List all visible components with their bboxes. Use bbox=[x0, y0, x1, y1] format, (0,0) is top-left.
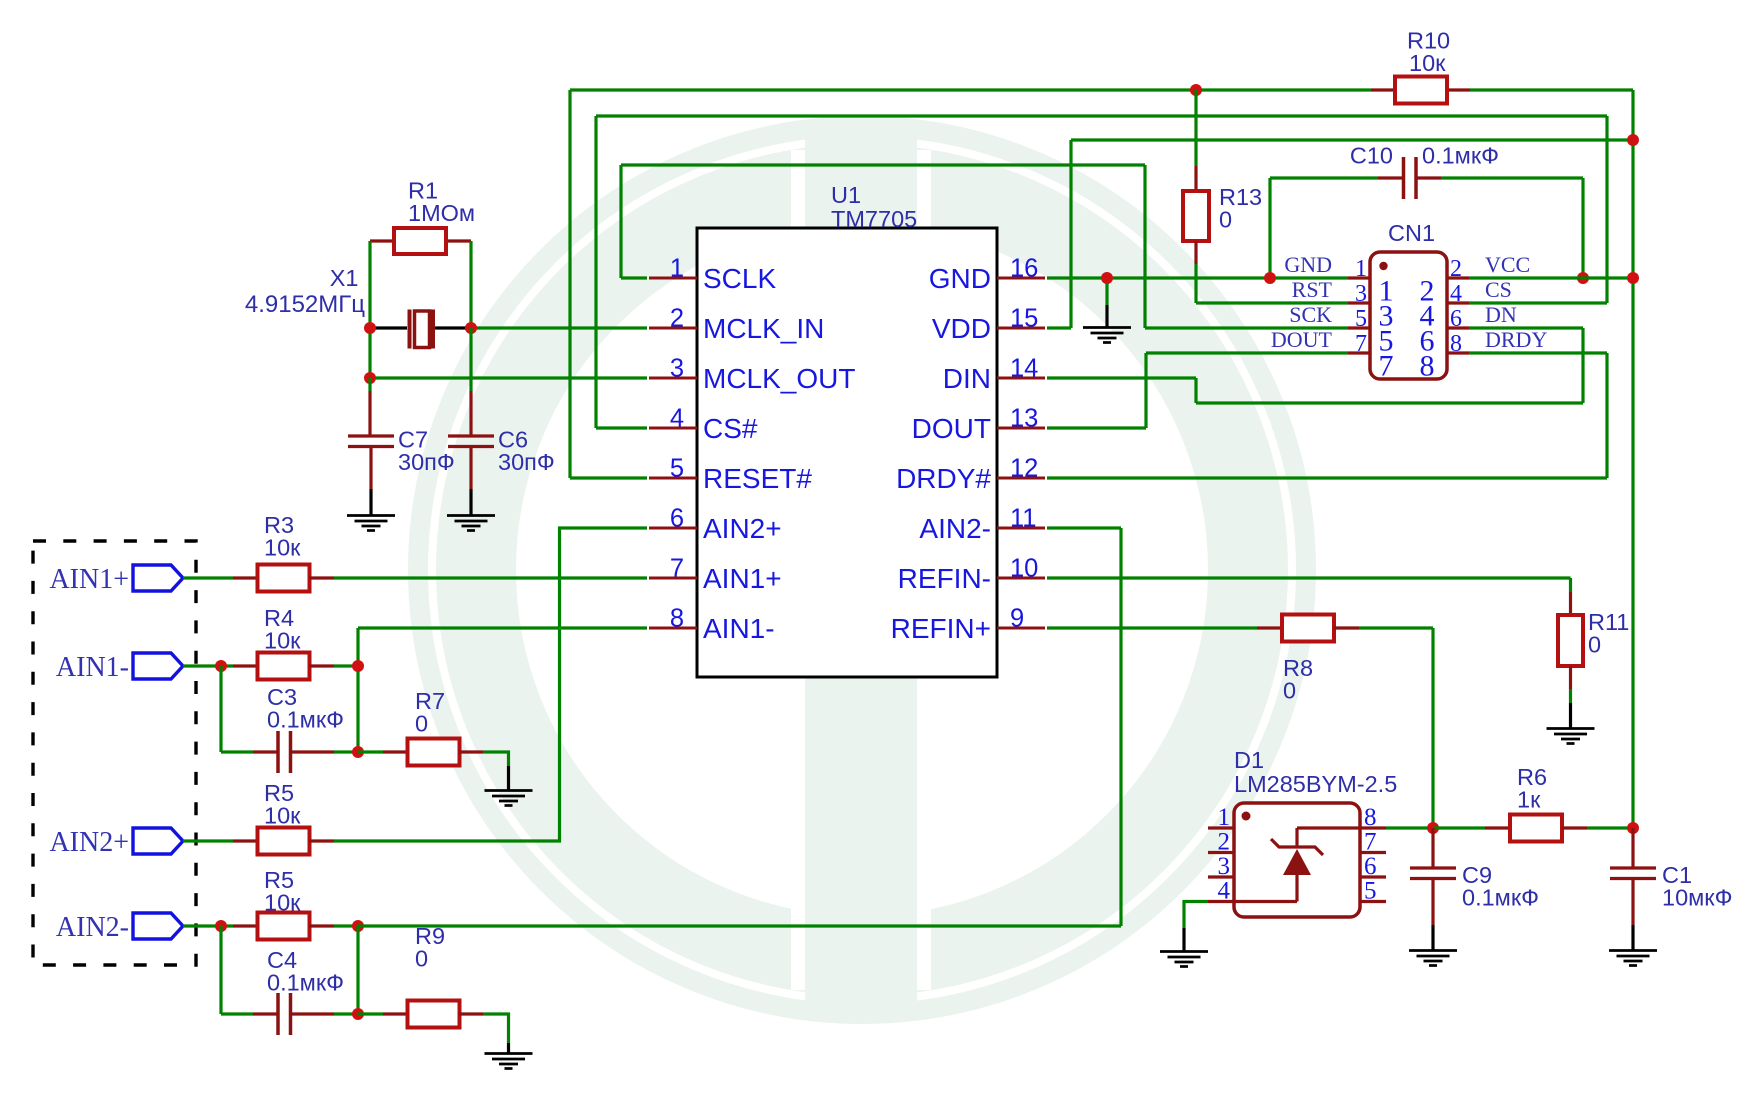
wire SCK row to CN1 bbox=[1145, 326, 1348, 329]
svg-text:1к: 1к bbox=[1517, 787, 1541, 813]
U1 pin 1 SCLK bbox=[649, 277, 697, 280]
svg-text:AIN1-: AIN1- bbox=[56, 652, 129, 683]
svg-text:AIN1+: AIN1+ bbox=[703, 563, 782, 594]
svg-text:TM7705: TM7705 bbox=[831, 206, 917, 232]
svg-text:VCC: VCC bbox=[1485, 252, 1530, 277]
wire DIN horizontal bbox=[1196, 401, 1583, 404]
wire to R7 bbox=[358, 750, 383, 753]
wire C10 to VCC row bbox=[1581, 178, 1584, 278]
U1 pin 13 DOUT bbox=[997, 427, 1045, 430]
svg-text:10к: 10к bbox=[264, 628, 301, 654]
ground bbox=[1160, 952, 1208, 967]
svg-text:8: 8 bbox=[1364, 804, 1377, 831]
wire to C6 bbox=[469, 328, 472, 391]
svg-text:10к: 10к bbox=[264, 535, 301, 561]
D1 pin 8 bbox=[1360, 826, 1386, 829]
CN1 pin 5 SCK bbox=[1348, 326, 1370, 329]
wire DOUT vertical bbox=[1144, 353, 1147, 428]
wire VCC row bbox=[1469, 276, 1633, 279]
svg-text:4.9152МГц: 4.9152МГц bbox=[245, 291, 365, 318]
C4 left lead bbox=[253, 1012, 277, 1015]
resistor R5 bbox=[258, 828, 310, 855]
svg-text:RST: RST bbox=[1292, 277, 1333, 302]
wire CS# net top bbox=[596, 114, 1607, 117]
wire AIN2- long horizontal bbox=[358, 924, 1121, 927]
svg-text:5: 5 bbox=[1364, 878, 1377, 905]
U1 pin 14 DIN bbox=[997, 377, 1045, 380]
wire C4 right bbox=[334, 1012, 358, 1015]
wire vertical to SCLK bbox=[619, 165, 622, 278]
U1 pin 10 REFIN- bbox=[997, 577, 1045, 580]
wire DRDY row CN1 bbox=[1469, 351, 1607, 354]
U1 pin 4 CS# bbox=[649, 427, 697, 430]
wire REFIN- bbox=[1047, 576, 1571, 579]
node AIN1- right junction bbox=[352, 660, 364, 672]
svg-text:VDD: VDD bbox=[932, 313, 991, 344]
C7 bottom lead bbox=[369, 447, 372, 489]
ground bbox=[485, 1054, 533, 1069]
watermark bar bbox=[805, 120, 917, 1017]
svg-text:10к: 10к bbox=[264, 803, 301, 829]
wire to C7 bbox=[368, 378, 371, 391]
R13 top lead bbox=[1194, 166, 1197, 191]
svg-text:8: 8 bbox=[670, 605, 684, 633]
svg-text:5: 5 bbox=[1355, 306, 1367, 332]
wire R9 to ground bbox=[483, 1014, 509, 1043]
R5 right lead bbox=[309, 924, 334, 927]
svg-text:10к: 10к bbox=[1409, 50, 1446, 76]
wire C10 right bbox=[1441, 176, 1583, 179]
wire CS vertical bbox=[1605, 116, 1608, 303]
capacitor C4 bbox=[278, 993, 291, 1035]
wire AIN2+ to pin 6 bbox=[334, 528, 647, 841]
wire CS# row bbox=[596, 426, 647, 429]
wire C6 to ground bbox=[469, 489, 472, 515]
wire VDD vertical bbox=[1069, 140, 1072, 328]
wire to C3 bbox=[221, 750, 253, 753]
R11 bottom lead bbox=[1569, 666, 1572, 689]
CN1 pin 6 DN bbox=[1447, 326, 1469, 329]
svg-text:3: 3 bbox=[1355, 281, 1367, 307]
capacitor C3 bbox=[278, 731, 291, 773]
input connector dashed box bbox=[33, 541, 196, 965]
ground bbox=[447, 516, 495, 531]
svg-text:AIN1-: AIN1- bbox=[703, 613, 775, 644]
U1 pin 16 GND bbox=[997, 277, 1045, 280]
CN1 pin 3 RST bbox=[1348, 301, 1370, 304]
R9 right lead bbox=[459, 1012, 483, 1015]
svg-text:CS: CS bbox=[1485, 277, 1512, 302]
svg-text:X1: X1 bbox=[330, 265, 359, 291]
R5 left lead bbox=[233, 839, 258, 842]
node GND junction bbox=[1101, 272, 1113, 284]
wire VDD to VCC net bbox=[1071, 138, 1633, 141]
wire R7 ground stem bbox=[507, 766, 510, 790]
wire AIN2+ to R5 bbox=[183, 839, 233, 842]
U1 pin 12 DRDY# bbox=[997, 477, 1045, 480]
svg-text:10: 10 bbox=[1010, 555, 1038, 583]
svg-text:DIN: DIN bbox=[943, 363, 991, 394]
svg-text:AIN2+: AIN2+ bbox=[703, 513, 782, 544]
wire DOUT row CN1 bbox=[1146, 351, 1348, 354]
watermark inner ring bbox=[476, 184, 1248, 956]
svg-text:4: 4 bbox=[1450, 281, 1462, 307]
svg-text:4: 4 bbox=[670, 405, 684, 433]
wire R4 right bbox=[334, 664, 358, 667]
svg-text:16: 16 bbox=[1010, 255, 1038, 283]
wire C10 left vertical bbox=[1268, 178, 1271, 278]
svg-text:CN1: CN1 bbox=[1388, 220, 1435, 246]
svg-text:CS#: CS# bbox=[703, 413, 758, 444]
capacitor C6 bbox=[448, 436, 494, 447]
D1 pin 7 bbox=[1360, 851, 1386, 854]
node C10-GND junction bbox=[1264, 272, 1276, 284]
wire C1 ground stem bbox=[1631, 925, 1634, 950]
node crystal right bbox=[465, 322, 477, 334]
node C10-VCC junction bbox=[1577, 272, 1589, 284]
CN1 pin 4 CS bbox=[1447, 301, 1469, 304]
R4 right lead bbox=[309, 664, 334, 667]
svg-text:5: 5 bbox=[670, 455, 684, 483]
wire R1 left vertical bbox=[368, 241, 371, 328]
node VCC junction bbox=[1627, 272, 1639, 284]
resistor R7 bbox=[408, 739, 460, 766]
svg-text:30пФ: 30пФ bbox=[498, 449, 555, 475]
U1 pin 15 VDD bbox=[997, 327, 1045, 330]
svg-text:14: 14 bbox=[1010, 355, 1038, 383]
R7 right lead bbox=[459, 750, 483, 753]
wire AIN2- to R5 bbox=[183, 924, 233, 927]
resistor R9 bbox=[408, 1001, 460, 1028]
U1 pin 8 AIN1- bbox=[649, 627, 697, 630]
R10 right lead bbox=[1446, 88, 1470, 91]
U1 pin 5 RESET# bbox=[649, 477, 697, 480]
wire to C4 bbox=[221, 1012, 253, 1015]
svg-text:DRDY: DRDY bbox=[1485, 327, 1547, 352]
wire REFIN+ bbox=[1047, 626, 1257, 629]
node R6-C1 junction bbox=[1627, 822, 1639, 834]
svg-text:SCLK: SCLK bbox=[703, 263, 776, 294]
capacitor C10 bbox=[1404, 157, 1417, 199]
svg-text:0: 0 bbox=[1283, 678, 1296, 704]
ground bbox=[1409, 951, 1457, 966]
R5 right lead bbox=[309, 839, 334, 842]
wire SCLK row bbox=[621, 276, 647, 279]
IC U1 TM7705 body bbox=[697, 228, 997, 677]
svg-text:9: 9 bbox=[1010, 605, 1024, 633]
svg-text:11: 11 bbox=[1010, 505, 1036, 533]
svg-text:8: 8 bbox=[1450, 331, 1462, 357]
wire R1 right vertical bbox=[469, 241, 472, 328]
node AIN2- left junction bbox=[215, 920, 227, 932]
svg-text:8: 8 bbox=[1420, 350, 1435, 383]
node VDD-VCC junction bbox=[1627, 134, 1639, 146]
wire R9 ground stem bbox=[507, 1043, 510, 1053]
C3 right lead bbox=[292, 750, 334, 753]
wire ground stem black bbox=[1105, 305, 1108, 327]
wire R7 to ground bbox=[483, 752, 509, 766]
watermark gaps bbox=[791, 150, 805, 990]
wire D1 ground stem bbox=[1182, 928, 1185, 951]
resistor R5 bbox=[258, 913, 310, 940]
wire R8 right bbox=[1359, 626, 1433, 629]
R5 left lead bbox=[233, 924, 258, 927]
wire vertical to CS# bbox=[594, 116, 597, 428]
wire AIN1+ to R3 bbox=[183, 576, 233, 579]
R8 left lead bbox=[1257, 626, 1282, 629]
svg-text:13: 13 bbox=[1010, 405, 1038, 433]
resistor R6 bbox=[1510, 815, 1562, 842]
wire DN row bbox=[1469, 326, 1583, 329]
CN1 pin1 marker dot bbox=[1379, 262, 1387, 270]
wire RST row bbox=[1196, 301, 1348, 304]
wire MCLK_IN bbox=[471, 326, 647, 329]
svg-text:6: 6 bbox=[1364, 853, 1377, 880]
svg-text:10мкФ: 10мкФ bbox=[1662, 885, 1732, 911]
CN1 pin 8 DRDY bbox=[1447, 351, 1469, 354]
D1 pin 3 bbox=[1208, 875, 1234, 878]
R10 left lead bbox=[1371, 88, 1395, 91]
wire VCC vertical right bbox=[1631, 90, 1634, 828]
resistor R10 bbox=[1395, 77, 1447, 104]
svg-text:12: 12 bbox=[1010, 455, 1038, 483]
svg-text:2: 2 bbox=[1450, 256, 1462, 282]
U1 pin 2 MCLK_IN bbox=[649, 327, 697, 330]
wire vertical SCLK to SCK bbox=[1143, 165, 1146, 328]
wire DIN up to DN bbox=[1581, 328, 1584, 403]
C1 bottom lead bbox=[1631, 879, 1634, 925]
svg-text:2: 2 bbox=[1218, 829, 1231, 856]
svg-text:AIN2-: AIN2- bbox=[919, 513, 991, 544]
wire to R6 bbox=[1433, 826, 1485, 829]
C3 left lead bbox=[253, 750, 277, 753]
C6 top lead bbox=[469, 391, 472, 435]
svg-text:0.1мкФ: 0.1мкФ bbox=[267, 970, 344, 996]
wire down to C4 bbox=[219, 926, 222, 1014]
R7 left lead bbox=[383, 750, 408, 753]
svg-text:MCLK_IN: MCLK_IN bbox=[703, 313, 824, 344]
R11 top lead bbox=[1569, 592, 1572, 615]
svg-text:0.1мкФ: 0.1мкФ bbox=[1422, 143, 1499, 169]
R13 bottom lead bbox=[1194, 241, 1197, 264]
wire DOUT bbox=[1047, 426, 1146, 429]
svg-text:30пФ: 30пФ bbox=[398, 449, 455, 475]
wire D1 pin4 to ground bbox=[1184, 902, 1208, 929]
D1 pin1 marker dot bbox=[1242, 812, 1251, 821]
U1 pin 11 AIN2- bbox=[997, 527, 1045, 530]
wire down to C3 bbox=[219, 666, 222, 752]
node AIN1- left junction bbox=[215, 660, 227, 672]
CN1 pin 7 DOUT bbox=[1348, 351, 1370, 354]
port AIN2- bbox=[133, 913, 183, 939]
U1 pin 7 AIN1+ bbox=[649, 577, 697, 580]
capacitor C9 bbox=[1410, 868, 1456, 879]
D1 pin 4 bbox=[1208, 900, 1234, 903]
wire VDD bbox=[1047, 326, 1071, 329]
crystal X1 bbox=[410, 310, 434, 349]
wire C7 to ground bbox=[369, 489, 372, 515]
node C3-R7 junction bbox=[352, 746, 364, 758]
svg-text:DOUT: DOUT bbox=[1271, 327, 1333, 352]
node AIN2- right junction bbox=[352, 920, 364, 932]
wire to C10 bbox=[1270, 176, 1378, 179]
resistor R4 bbox=[258, 653, 310, 680]
svg-text:0: 0 bbox=[415, 946, 428, 972]
wire D1 pin8 out bbox=[1386, 826, 1433, 829]
ground bbox=[347, 516, 395, 531]
wire DRDY# bbox=[1047, 476, 1607, 479]
ground bbox=[1609, 951, 1657, 966]
node C4-R9 junction bbox=[352, 1008, 364, 1020]
wire to R9 bbox=[358, 1012, 383, 1015]
wire R4/C3 junction vertical bbox=[356, 628, 359, 752]
node MCLK_OUT junction bbox=[364, 372, 376, 384]
wire GND row U1 to CN1 bbox=[1047, 276, 1348, 279]
R1 right lead bbox=[446, 239, 471, 242]
svg-text:MCLK_OUT: MCLK_OUT bbox=[703, 363, 855, 394]
svg-text:7: 7 bbox=[1355, 331, 1367, 357]
wire AIN1- to R4 bbox=[183, 664, 233, 667]
R1 left lead bbox=[370, 239, 394, 242]
svg-text:7: 7 bbox=[1364, 829, 1377, 856]
wire R8 to D1 pin8 node bbox=[1431, 628, 1434, 828]
wire R10 right to VCC vertical bbox=[1470, 88, 1633, 91]
wire vertical to RESET# bbox=[568, 90, 571, 478]
wire R11 bottom bbox=[1569, 689, 1572, 703]
wire R11 ground stem bbox=[1569, 703, 1572, 728]
resistor R8 bbox=[1282, 615, 1334, 642]
wire junction vertical bbox=[356, 926, 359, 1014]
CN1 pin 2 VCC bbox=[1447, 276, 1469, 279]
wire AIN2- vertical bbox=[1119, 528, 1122, 926]
svg-text:DN: DN bbox=[1485, 302, 1517, 327]
svg-text:1: 1 bbox=[1218, 804, 1231, 831]
wire R11 top bbox=[1569, 578, 1572, 592]
wire CS row CN1 bbox=[1469, 301, 1607, 304]
svg-text:0.1мкФ: 0.1мкФ bbox=[267, 707, 344, 733]
svg-text:GND: GND bbox=[929, 263, 991, 294]
svg-text:0: 0 bbox=[1219, 207, 1232, 233]
svg-text:0.1мкФ: 0.1мкФ bbox=[1462, 885, 1539, 911]
port AIN1+ bbox=[133, 565, 183, 591]
svg-text:D1: D1 bbox=[1234, 747, 1264, 773]
wire DIN bbox=[1047, 376, 1196, 379]
svg-text:U1: U1 bbox=[831, 182, 861, 208]
capacitor C1 bbox=[1610, 868, 1656, 879]
watermark logo ring bbox=[418, 126, 1306, 1014]
C4 right lead bbox=[292, 1012, 334, 1015]
R9 left lead bbox=[383, 1012, 408, 1015]
svg-text:15: 15 bbox=[1010, 305, 1038, 333]
wire AIN2- to pin 11 bbox=[1047, 526, 1121, 529]
svg-text:3: 3 bbox=[1218, 853, 1231, 880]
node crystal left bbox=[364, 322, 376, 334]
wire R13 top bbox=[1194, 90, 1197, 166]
D1 internal zener diode bbox=[1234, 828, 1360, 902]
C10 left lead bbox=[1378, 176, 1403, 179]
svg-text:C10: C10 bbox=[1350, 143, 1393, 169]
wire AIN1- to pin 8 bbox=[358, 626, 647, 629]
R6 right lead bbox=[1562, 826, 1587, 829]
svg-text:LM285BYM-2.5: LM285BYM-2.5 bbox=[1234, 771, 1397, 797]
svg-text:0: 0 bbox=[415, 711, 428, 737]
R8 right lead bbox=[1334, 626, 1359, 629]
C6 bottom lead bbox=[469, 447, 472, 489]
U1 pin 3 MCLK_OUT bbox=[649, 377, 697, 380]
C1 top lead bbox=[1631, 828, 1634, 867]
D1 pin 1 bbox=[1208, 826, 1234, 829]
ground bbox=[1547, 729, 1595, 744]
wire crystal right lead bbox=[435, 326, 471, 329]
wire SCLK net top bbox=[621, 163, 1145, 166]
C7 top lead bbox=[368, 391, 371, 435]
wire crystal left lead bbox=[370, 326, 407, 329]
port AIN2+ bbox=[133, 828, 183, 854]
wire ground stem bbox=[1105, 278, 1108, 305]
svg-text:AIN1+: AIN1+ bbox=[49, 564, 129, 595]
svg-text:6: 6 bbox=[670, 505, 684, 533]
connector CN1 body bbox=[1370, 252, 1447, 379]
D1 pin 6 bbox=[1360, 875, 1386, 878]
svg-text:4: 4 bbox=[1218, 878, 1231, 905]
C10 right lead bbox=[1416, 176, 1441, 179]
capacitor C7 bbox=[348, 436, 394, 447]
port AIN1- bbox=[133, 653, 183, 679]
svg-text:0: 0 bbox=[1588, 632, 1601, 658]
svg-text:DRDY#: DRDY# bbox=[896, 463, 991, 494]
svg-text:2: 2 bbox=[670, 305, 684, 333]
R3 left lead bbox=[233, 576, 258, 579]
svg-text:6: 6 bbox=[1450, 306, 1462, 332]
wire R6 to C1 bbox=[1587, 826, 1633, 829]
wire DIN jog down bbox=[1194, 378, 1197, 403]
ground bbox=[485, 791, 533, 806]
svg-text:7: 7 bbox=[1379, 350, 1394, 383]
wire DRDY vertical bbox=[1605, 353, 1608, 478]
svg-text:REFIN+: REFIN+ bbox=[891, 613, 991, 644]
wire MCLK_OUT bbox=[370, 376, 647, 379]
svg-text:1: 1 bbox=[670, 255, 684, 283]
resistor R13 bbox=[1183, 191, 1209, 241]
node R13 top junction bbox=[1190, 84, 1202, 96]
svg-text:1МОм: 1МОм bbox=[408, 200, 475, 226]
resistor R11 bbox=[1558, 615, 1583, 666]
svg-text:7: 7 bbox=[670, 555, 684, 583]
wire RESET# row bbox=[570, 476, 647, 479]
R6 left lead bbox=[1485, 826, 1510, 829]
ground bbox=[1083, 328, 1131, 343]
svg-text:AIN2-: AIN2- bbox=[56, 912, 129, 943]
C9 bottom lead bbox=[1431, 879, 1434, 925]
wire R3 to AIN1+ pin bbox=[334, 576, 647, 579]
svg-text:10к: 10к bbox=[264, 890, 301, 916]
wire R5 right bbox=[334, 924, 358, 927]
resistor R3 bbox=[258, 565, 310, 592]
svg-text:1: 1 bbox=[1355, 256, 1367, 282]
svg-text:GND: GND bbox=[1284, 252, 1332, 277]
R4 left lead bbox=[233, 664, 258, 667]
diode D1 LM285BYM-2.5 body bbox=[1234, 803, 1360, 917]
CN1 pin 1 GND bbox=[1348, 276, 1370, 279]
wire C3 right bbox=[334, 750, 358, 753]
resistor R1 bbox=[394, 228, 446, 254]
node VREF junction bbox=[1427, 822, 1439, 834]
wire C9 ground stem bbox=[1431, 925, 1434, 950]
U1 pin 9 REFIN+ bbox=[997, 627, 1045, 630]
C9 top lead bbox=[1431, 828, 1434, 867]
D1 pin 2 bbox=[1208, 851, 1234, 854]
D1 pin 5 bbox=[1360, 900, 1386, 903]
